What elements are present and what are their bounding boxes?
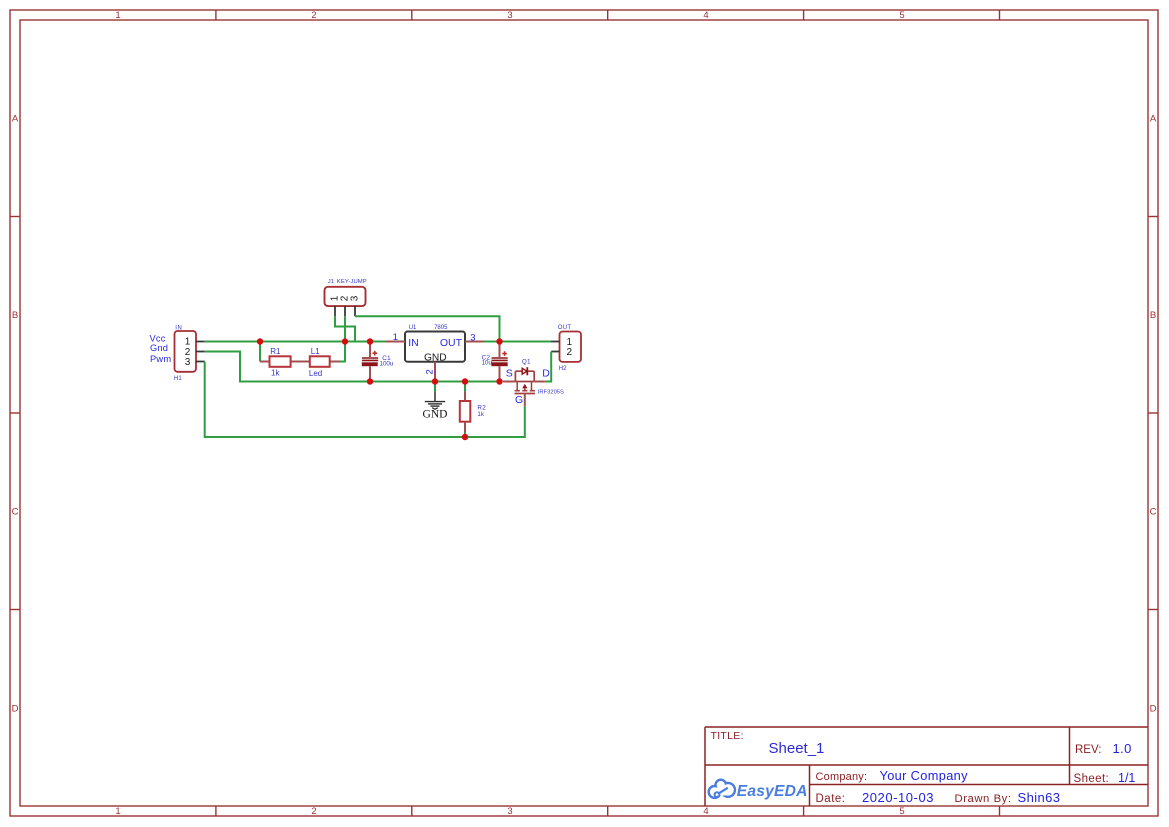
U1 pin 3 stub bbox=[465, 341, 484, 343]
wire: R1 branch riser left bbox=[259, 342, 261, 362]
svg-text:KEY-JUMP: KEY-JUMP bbox=[337, 279, 367, 285]
svg-text:IN: IN bbox=[408, 337, 419, 349]
resistor R2 bbox=[460, 382, 471, 438]
svg-text:A: A bbox=[12, 114, 19, 125]
J1 pin 2 stub bbox=[344, 306, 346, 317]
svg-text:Your Company: Your Company bbox=[880, 768, 969, 783]
svg-text:2: 2 bbox=[566, 347, 572, 358]
junction at PWM rail / R2 bottom bbox=[462, 434, 468, 440]
svg-text:D: D bbox=[542, 368, 550, 380]
svg-text:1k: 1k bbox=[477, 411, 484, 418]
J1 pin 1 stub bbox=[334, 306, 336, 317]
svg-text:100u: 100u bbox=[380, 361, 394, 368]
svg-text:10u: 10u bbox=[482, 360, 493, 367]
svg-text:4: 4 bbox=[703, 10, 708, 21]
svg-text:1/1: 1/1 bbox=[1118, 771, 1135, 785]
junction at GND rail / C2 bottom / Q1 source bbox=[496, 378, 502, 384]
svg-text:C: C bbox=[12, 507, 19, 518]
svg-text:J1: J1 bbox=[328, 279, 334, 285]
svg-text:Led: Led bbox=[309, 369, 322, 378]
svg-text:1k: 1k bbox=[271, 368, 280, 377]
svg-text:D: D bbox=[12, 704, 19, 715]
junction at GND rail / U1.2 bbox=[432, 378, 438, 384]
svg-text:Sheet:: Sheet: bbox=[1074, 773, 1110, 785]
svg-text:Drawn By:: Drawn By: bbox=[955, 793, 1012, 805]
H2 pin 2 stub bbox=[551, 351, 559, 353]
svg-text:1: 1 bbox=[115, 806, 120, 817]
svg-text:3: 3 bbox=[507, 10, 512, 21]
junction at VCC/L1 branch and J1.2 bbox=[342, 338, 348, 344]
svg-text:TITLE:: TITLE: bbox=[711, 730, 744, 742]
svg-text:B: B bbox=[12, 310, 18, 321]
wire: H1.3 to PWM bottom rail bbox=[205, 362, 525, 438]
resistor L1 (Led) bbox=[310, 356, 340, 367]
svg-text:IRF3205S: IRF3205S bbox=[538, 389, 564, 395]
svg-text:Date:: Date: bbox=[816, 793, 846, 805]
svg-text:7805: 7805 bbox=[434, 325, 448, 331]
H2 pin 1 stub bbox=[551, 341, 560, 343]
capacitor C2 bbox=[491, 342, 507, 382]
svg-text:G: G bbox=[515, 394, 523, 406]
svg-text:2: 2 bbox=[311, 806, 316, 817]
junction at OUT node (U1.3/J1.3/C2/H2.1) bbox=[496, 338, 502, 344]
svg-text:Sheet_1: Sheet_1 bbox=[769, 740, 825, 757]
svg-text:Gnd: Gnd bbox=[150, 343, 168, 353]
wire: L1 branch riser right bbox=[340, 342, 345, 362]
svg-text:2: 2 bbox=[311, 10, 316, 21]
svg-text:Company:: Company: bbox=[816, 771, 868, 783]
H1 pin 2 stub bbox=[196, 351, 205, 353]
svg-text:1: 1 bbox=[115, 10, 120, 21]
svg-text:3: 3 bbox=[185, 357, 191, 368]
svg-text:2: 2 bbox=[425, 369, 436, 374]
transistor Q1 (IRF3205S) bbox=[503, 367, 545, 406]
wire: H1.2 to GND rail bbox=[205, 352, 500, 382]
svg-text:5: 5 bbox=[899, 10, 904, 21]
regulator U1 bbox=[405, 332, 465, 362]
U1 pin 1 stub bbox=[386, 341, 406, 343]
J1 pin 3 stub bbox=[354, 306, 356, 317]
svg-text:L1: L1 bbox=[311, 347, 320, 356]
wire: U1 OUT to node bbox=[484, 341, 500, 343]
svg-text:1: 1 bbox=[393, 332, 398, 343]
svg-text:U1: U1 bbox=[409, 325, 417, 331]
resistor R1 bbox=[260, 356, 310, 367]
wire: H1.1 to VCC rail bbox=[205, 341, 386, 343]
svg-text:REV:: REV: bbox=[1075, 744, 1101, 756]
svg-text:EasyEDA: EasyEDA bbox=[737, 783, 808, 800]
ground symbol bbox=[425, 382, 445, 410]
svg-text:5: 5 bbox=[899, 806, 904, 817]
svg-text:R1: R1 bbox=[270, 347, 281, 356]
svg-text:D: D bbox=[1150, 704, 1157, 715]
U1 pin 2 stub bbox=[434, 362, 436, 382]
wire: H2.2 down to Q1 drain bbox=[545, 352, 551, 382]
header H1 bbox=[175, 331, 197, 372]
junction at VCC/C1 top bbox=[367, 338, 373, 344]
svg-text:1.0: 1.0 bbox=[1113, 741, 1132, 756]
junction at GND rail / R2 top bbox=[462, 378, 468, 384]
svg-text:3: 3 bbox=[470, 332, 475, 343]
svg-text:Q1: Q1 bbox=[522, 359, 531, 366]
svg-text:H2: H2 bbox=[559, 366, 567, 372]
svg-text:H1: H1 bbox=[174, 376, 182, 382]
jumper J1 bbox=[325, 287, 366, 306]
EasyEDA logo bbox=[709, 780, 808, 800]
svg-text:Pwm: Pwm bbox=[150, 354, 171, 364]
wire: J1.1 down to rail bbox=[335, 316, 355, 341]
wire: J1.3 right and down to U1 OUT node bbox=[355, 316, 500, 341]
svg-text:S: S bbox=[506, 368, 513, 380]
svg-text:GND: GND bbox=[423, 409, 448, 421]
junction at GND rail / C1 bottom bbox=[367, 378, 373, 384]
wire: node to H2.1 bbox=[500, 341, 551, 343]
H1 pin 3 stub bbox=[196, 361, 205, 363]
svg-text:3: 3 bbox=[350, 295, 361, 301]
svg-text:4: 4 bbox=[703, 806, 708, 817]
svg-text:OUT: OUT bbox=[558, 325, 572, 331]
capacitor C1 bbox=[362, 342, 378, 382]
svg-text:Vcc: Vcc bbox=[150, 333, 166, 343]
svg-text:OUT: OUT bbox=[440, 337, 463, 349]
svg-text:3: 3 bbox=[507, 806, 512, 817]
wire: J1.2 down to rail bbox=[344, 316, 346, 341]
svg-text:B: B bbox=[1150, 310, 1156, 321]
header H2 bbox=[560, 332, 582, 362]
svg-text:A: A bbox=[1150, 114, 1157, 125]
junction at VCC/R1 branch bbox=[257, 338, 263, 344]
H1 pin 1 stub bbox=[196, 341, 205, 343]
svg-text:C: C bbox=[1150, 507, 1157, 518]
svg-text:2020-10-03: 2020-10-03 bbox=[862, 790, 934, 805]
svg-text:Shin63: Shin63 bbox=[1018, 790, 1061, 805]
svg-text:IN: IN bbox=[175, 326, 182, 332]
